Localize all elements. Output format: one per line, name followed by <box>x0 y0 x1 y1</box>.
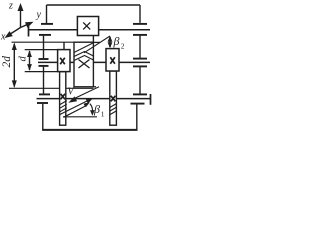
housing top line <box>47 4 141 6</box>
dimension d extension top <box>25 49 58 51</box>
support stem left mid <box>43 67 45 94</box>
housing bottom right drop <box>136 104 138 129</box>
stage2 helix line to beta2 arrow <box>84 36 110 53</box>
bearing cap top-left upper <box>41 23 53 25</box>
gear box 3 x mark <box>60 58 65 65</box>
svg-text:x: x <box>0 32 6 43</box>
shaft 1 end coupling bar <box>28 24 30 37</box>
stage1 helix line with arrow (to shaft4) <box>60 99 93 115</box>
left column x mark <box>61 94 66 100</box>
gear box 1 (pinion on shaft 1) <box>77 17 98 36</box>
x axis <box>5 28 21 39</box>
dimension 2d line <box>12 42 17 88</box>
dimension 2d bottom extension line <box>9 87 93 89</box>
svg-text:β: β <box>113 34 120 48</box>
central column bottom edge extension <box>93 86 96 88</box>
bearing cap top-right upper <box>133 23 147 25</box>
stage1 helix line for beta1 with arrow <box>64 103 90 118</box>
beta1 measure arc arrow <box>83 100 95 116</box>
bearing cap right (shaft3 lower) <box>133 65 147 67</box>
housing bottom left drop <box>42 104 44 130</box>
z axis <box>18 3 24 28</box>
svg-text:z: z <box>8 1 13 12</box>
gear box 2 x mark <box>110 57 115 64</box>
bearing cap left (shaft4 lower) <box>37 102 48 104</box>
gear box 1 cross mark <box>83 22 90 29</box>
dimension d extension bottom <box>25 71 58 73</box>
right column hatching <box>110 103 117 114</box>
beta2 measure arrow <box>108 36 113 49</box>
stage1 horizontal reference <box>63 116 97 118</box>
housing right drop <box>139 5 141 23</box>
bearing cap right (shaft4 lower) <box>131 103 145 105</box>
gear box 3 (left wheel on shaft 3) <box>58 50 70 72</box>
support stem left (shaft1 to shaft3 bearing) <box>43 36 45 59</box>
left hollow gear column <box>60 72 66 126</box>
svg-text:d: d <box>18 56 29 62</box>
shaft 1 (input) <box>29 29 151 31</box>
central column cross mark <box>79 60 90 69</box>
bearing cap top-right lower (shaft 1) <box>133 34 147 36</box>
bearing cap right (shaft4 upper) <box>133 93 147 95</box>
shaft 3 (second axis) <box>38 61 150 63</box>
left column hatching <box>60 101 67 112</box>
stage2 chevron 2 <box>74 56 93 61</box>
shaft 4 (output) <box>37 98 152 100</box>
shaft 4 end coupling bar <box>150 94 152 105</box>
central column top edge extension <box>93 41 100 43</box>
housing left drop <box>46 5 48 23</box>
svg-text:y: y <box>36 10 42 21</box>
svg-text:2: 2 <box>121 42 125 51</box>
y axis <box>21 22 34 28</box>
stage2 chevron 1 <box>74 52 93 57</box>
bearing cap left (shaft3 upper) <box>39 58 49 60</box>
stage2 mesh diagonal <box>74 43 93 53</box>
svg-text:1: 1 <box>101 110 105 119</box>
bearing cap left (shaft4 upper) <box>39 93 50 95</box>
bearing cap left (shaft3 lower) <box>39 65 49 67</box>
support stem right upper <box>139 36 141 58</box>
central column right edge upper extension <box>92 36 94 42</box>
bearing cap left lower (shaft 1) <box>39 34 51 36</box>
right hollow gear column <box>110 71 117 125</box>
svg-text:2d: 2d <box>1 56 13 68</box>
right column x mark <box>111 96 116 102</box>
support stem right mid <box>139 67 141 94</box>
bearing cap right (shaft3 upper) <box>133 58 147 60</box>
svg-text:β: β <box>93 102 100 116</box>
dimension d line <box>27 50 32 71</box>
stem above box 3 <box>63 42 65 49</box>
velocity arrow line V <box>68 87 99 103</box>
central gear column (white body) <box>74 42 93 87</box>
housing bottom line <box>42 129 137 131</box>
shaft 2 (intermediate axis) <box>12 41 75 43</box>
gear box 2 (right wheel on shaft 3) <box>106 49 119 71</box>
